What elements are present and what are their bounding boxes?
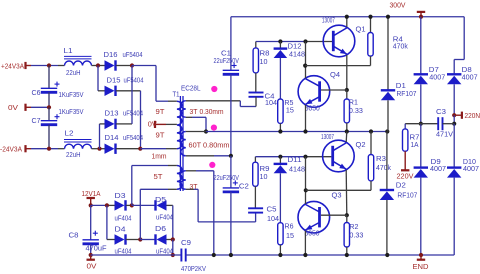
- svg-text:+24V3A: +24V3A: [1, 64, 24, 71]
- node junction +24V/C6: [47, 63, 51, 67]
- diode D7 4007: [420, 17, 422, 75]
- wire Q1 emitter down: [346, 55, 348, 90]
- phase dot upper: [211, 86, 217, 92]
- svg-text:300V: 300V: [390, 3, 406, 10]
- wire Q2 base rail: [255, 156, 305, 158]
- wire to transformer primary top: [132, 65, 156, 67]
- svg-text:4148: 4148: [289, 52, 305, 59]
- wire D4 cathode to node: [126, 239, 140, 241]
- wire Q4 emitter to mid rail: [305, 105, 307, 132]
- resistor R4 470k: [370, 17, 372, 33]
- wire -24V rail: [26, 148, 31, 150]
- node junction 3T ground: [212, 253, 216, 257]
- wire Q1 base rail: [256, 41, 306, 43]
- svg-text:0V: 0V: [148, 122, 157, 129]
- transformer primary 60T winding: [181, 132, 186, 156]
- terminal 0V left: [24, 104, 26, 111]
- node junction 5T top node: [130, 203, 134, 207]
- svg-text:Q2: Q2: [356, 142, 366, 149]
- node junction capacitor midpoint: [229, 154, 233, 158]
- wire D3 cathode to node: [126, 204, 132, 206]
- node junction R4 top: [368, 15, 372, 19]
- svg-text:T1: T1: [173, 92, 180, 99]
- svg-text:R4: R4: [393, 37, 403, 44]
- node junction 0V/C6/C7: [47, 105, 51, 109]
- svg-text:4148: 4148: [289, 167, 305, 174]
- svg-text:Q1: Q1: [356, 27, 366, 34]
- svg-text:D11: D11: [288, 157, 302, 164]
- svg-text:D4: D4: [115, 227, 126, 234]
- wire Q3 base: [321, 214, 347, 216]
- node junction D14 anode: [97, 147, 101, 151]
- svg-text:1KuF35V: 1KuF35V: [59, 109, 84, 116]
- node junction R3 return: [304, 188, 308, 192]
- transformer secondary 3T drive winding lower: [180, 171, 186, 190]
- terminal 12V1A: [87, 197, 95, 199]
- terminal -24V3A: [24, 145, 26, 152]
- svg-text:D2: D2: [396, 183, 406, 190]
- wire 12V rail: [91, 204, 107, 206]
- wire 60T bottom pin to C1/C2 midpoint: [186, 155, 214, 157]
- diode D6 uF404: [157, 234, 167, 244]
- wire anodes to primary ground: [172, 240, 174, 256]
- node junction D7/C3: [419, 122, 423, 126]
- inductor L1: [58, 65, 65, 67]
- svg-text:220V: 220V: [397, 174, 414, 181]
- node junction Q4 emitter mid: [303, 129, 307, 133]
- svg-text:0.33: 0.33: [349, 233, 363, 240]
- node junction D2 ground: [385, 253, 389, 257]
- node junction R2 ground: [345, 253, 349, 257]
- svg-text:D16: D16: [104, 52, 118, 59]
- diode D5 uF404: [157, 200, 167, 210]
- wire D12 to R5: [279, 58, 281, 99]
- diode D14 uF5404: [105, 144, 115, 154]
- svg-text:C1: C1: [221, 51, 231, 58]
- svg-text:L1: L1: [64, 48, 73, 55]
- transistor Q2 13007: [323, 140, 355, 172]
- svg-text:22uH: 22uH: [66, 152, 81, 159]
- node junction rectified +24 node: [130, 63, 134, 67]
- svg-text:D12: D12: [288, 44, 302, 51]
- svg-text:C7: C7: [32, 118, 41, 125]
- terminal 220V: [404, 151, 406, 170]
- capacitor C9 470P2KV: [180, 249, 182, 262]
- capacitor C2 22uF250V: [230, 156, 232, 188]
- node junction D16 anode: [96, 63, 100, 67]
- resistor R8 10: [255, 42, 257, 48]
- wire Q1 collector to rail: [346, 17, 348, 27]
- diode D8 4007: [447, 73, 461, 75]
- wire L2 to D14: [92, 148, 105, 150]
- svg-text:22uH: 22uH: [66, 70, 81, 77]
- svg-text:471V: 471V: [436, 132, 453, 139]
- svg-text:D6: D6: [155, 226, 166, 233]
- node junction Q3 emitter ground: [303, 253, 307, 257]
- svg-text:22uF250V: 22uF250V: [214, 175, 240, 182]
- svg-text:uF5404: uF5404: [123, 135, 143, 142]
- wire Q2 emitter down: [345, 170, 348, 215]
- wire Q2 collector to mid rail: [345, 132, 348, 143]
- svg-text:4007: 4007: [462, 75, 478, 82]
- wire D6 anode to ground branch: [167, 239, 173, 241]
- svg-text:0V: 0V: [8, 105, 18, 112]
- capacitor C5 104: [254, 186, 256, 208]
- wire D8 to C3 node: [453, 115, 455, 124]
- terminal 220N: [452, 113, 456, 117]
- node junction 12V rail: [89, 203, 93, 207]
- svg-text:8050: 8050: [305, 231, 320, 238]
- svg-text:15: 15: [286, 108, 294, 115]
- svg-text:RF107: RF107: [397, 91, 417, 98]
- svg-text:C8: C8: [69, 233, 79, 240]
- transistor Q4 8050: [298, 76, 330, 108]
- resistor R7 1A: [404, 124, 406, 129]
- wire primary ground rail: [91, 254, 182, 256]
- node junction C2 ground: [229, 253, 233, 257]
- transformer T1 EC28L core: [179, 96, 181, 191]
- diode D1 RF107: [387, 17, 389, 91]
- phase dot middle: [211, 125, 217, 131]
- svg-text:0V: 0V: [87, 264, 97, 271]
- svg-text:60T 0.80mm: 60T 0.80mm: [189, 143, 230, 150]
- wire 300V top rail: [231, 16, 464, 18]
- diode D12 4148: [279, 42, 281, 49]
- svg-text:8050: 8050: [305, 106, 320, 113]
- svg-text:12V1A: 12V1A: [82, 191, 101, 198]
- svg-text:D10: D10: [463, 159, 476, 166]
- terminal +24V3A: [24, 62, 26, 69]
- node junction C8 ground: [89, 253, 93, 257]
- svg-text:4007: 4007: [430, 166, 446, 173]
- node junction R3 mid: [369, 129, 373, 133]
- svg-text:D8: D8: [462, 67, 472, 74]
- svg-text:104: 104: [267, 216, 279, 223]
- node junction primary ground: [171, 253, 175, 257]
- wire D7 line to D9: [420, 124, 422, 168]
- diode D3 uF404: [115, 200, 125, 210]
- svg-text:10: 10: [260, 174, 268, 181]
- wire L1 to D16: [92, 65, 105, 67]
- svg-text:3T: 3T: [190, 109, 199, 116]
- diode D4 uF404: [115, 234, 125, 244]
- svg-text:R9: R9: [260, 166, 270, 173]
- resistor R9 10: [254, 157, 256, 163]
- svg-text:9T: 9T: [156, 109, 166, 116]
- capacitor C6 1KuF35V: [48, 66, 50, 89]
- svg-text:13007: 13007: [322, 18, 335, 25]
- svg-text:D3: D3: [115, 193, 126, 200]
- svg-text:RF107: RF107: [397, 192, 417, 199]
- svg-text:-24V3A: -24V3A: [0, 147, 22, 154]
- svg-text:END: END: [413, 264, 429, 271]
- svg-text:D5: D5: [155, 197, 166, 204]
- transistor Q1 13007: [323, 25, 355, 57]
- capacitor C8 470uF: [90, 205, 92, 239]
- wire mid rail: [206, 131, 387, 133]
- wire 0V rail: [26, 106, 31, 108]
- wire Q3 collector line: [305, 157, 307, 204]
- node junction 300V: [419, 15, 423, 19]
- wire D16 cathode to node: [116, 65, 132, 67]
- svg-text:R8: R8: [260, 51, 270, 58]
- wire secondary ground rail: [186, 254, 455, 256]
- svg-text:C2: C2: [239, 184, 249, 191]
- svg-text:D13: D13: [105, 111, 119, 118]
- wire R4 bottom to base line: [370, 56, 372, 66]
- wire Q4 collector line: [305, 42, 307, 79]
- node junction R4 return: [303, 64, 307, 68]
- svg-text:470uF: 470uF: [86, 246, 107, 253]
- node junction END ground: [419, 253, 423, 257]
- svg-text:R6: R6: [285, 224, 294, 231]
- svg-text:9T: 9T: [156, 133, 166, 140]
- svg-text:Q4: Q4: [330, 72, 340, 79]
- wire D11 to R6: [279, 173, 281, 222]
- wire node to D6 cathode: [140, 239, 155, 241]
- svg-text:uF404: uF404: [115, 216, 132, 223]
- capacitor C4 104: [255, 73, 257, 93]
- node junction R1 mid / Q2 collector: [345, 129, 349, 133]
- wire 3T lower bottom pin to C5: [186, 188, 194, 190]
- svg-text:C9: C9: [181, 240, 191, 247]
- node junction D11 top: [278, 155, 282, 159]
- resistor R2 0.33: [346, 215, 348, 222]
- transformer feedback 5T winding: [177, 166, 182, 190]
- svg-text:1KuF35V: 1KuF35V: [59, 92, 84, 99]
- svg-text:470k: 470k: [393, 44, 408, 51]
- node junction Q1 emitter / Q4 base: [345, 88, 349, 92]
- wire D15 branch: [97, 66, 99, 91]
- svg-text:15: 15: [286, 233, 294, 240]
- wire D15 cathode down to -24 node: [116, 90, 141, 92]
- wire Q4 base: [321, 89, 347, 91]
- svg-text:D15: D15: [107, 78, 121, 85]
- node junction -24V/C7: [47, 147, 51, 151]
- svg-text:L2: L2: [65, 131, 74, 138]
- node junction rectified -24 node: [138, 147, 142, 151]
- svg-text:D1: D1: [396, 83, 406, 90]
- node junction D5/D6 anodes: [171, 237, 175, 241]
- node junction Q2 base line: [303, 155, 307, 159]
- node junction D1 top: [386, 15, 390, 19]
- wire node to D5 cathode: [132, 204, 155, 206]
- svg-text:104: 104: [265, 100, 277, 107]
- transformer primary 9T+9T winding: [177, 101, 182, 149]
- diode D9 4007: [414, 166, 428, 168]
- svg-text:R1: R1: [349, 100, 358, 107]
- wire 5T top connection: [131, 166, 133, 206]
- svg-text:uF404: uF404: [156, 215, 173, 222]
- svg-text:R5: R5: [284, 100, 293, 107]
- svg-text:470P2KV: 470P2KV: [181, 266, 206, 273]
- svg-text:220N: 220N: [465, 113, 480, 120]
- node junction Q2 emitter / Q3 base: [345, 213, 349, 217]
- node junction D12 top: [278, 39, 282, 43]
- diode D2 RF107: [386, 132, 388, 191]
- wire D4 branch vertical: [106, 205, 108, 239]
- wire 60T top pin: [186, 131, 206, 133]
- svg-text:10: 10: [260, 59, 268, 66]
- svg-text:D9: D9: [431, 159, 441, 166]
- node junction C3 right: [452, 122, 456, 126]
- capacitor C7 1KuF35V: [48, 107, 50, 120]
- svg-text:4007: 4007: [463, 166, 479, 173]
- wire 3T lower top pin to ground: [186, 170, 196, 172]
- resistor R6 15: [278, 223, 283, 245]
- svg-text:R2: R2: [349, 224, 358, 231]
- node junction Q1 base line: [303, 39, 307, 43]
- diode D15 uF5404: [105, 86, 115, 96]
- svg-text:uF5404: uF5404: [123, 52, 143, 59]
- wire D13 cathode up to +24 node: [116, 123, 132, 125]
- svg-text:1mm: 1mm: [152, 154, 167, 161]
- svg-text:C6: C6: [32, 90, 41, 97]
- svg-text:R7: R7: [410, 135, 420, 142]
- node junction R5 mid: [278, 129, 282, 133]
- node junction mid-rail left: [204, 129, 208, 133]
- diode D16 uF5404: [105, 60, 115, 70]
- transistor Q3 8050: [298, 201, 330, 233]
- wire Q3 emitter to ground: [304, 231, 306, 255]
- svg-text:Q3: Q3: [332, 193, 342, 200]
- svg-text:5T: 5T: [154, 174, 164, 181]
- svg-text:0.30mm: 0.30mm: [200, 109, 224, 116]
- wire D10 branch: [453, 124, 455, 168]
- node junction Q1 collector: [345, 15, 349, 19]
- node junction D4 branch: [105, 203, 109, 207]
- diode D13 uF5404: [105, 119, 115, 129]
- svg-text:R3: R3: [376, 156, 386, 163]
- svg-text:EC28L: EC28L: [181, 85, 201, 92]
- terminal 0V bottom: [90, 255, 92, 260]
- resistor R5 15: [278, 99, 283, 123]
- resistor R3 470k: [370, 132, 372, 155]
- svg-text:D14: D14: [105, 135, 119, 142]
- node junction 5T bottom node: [138, 237, 142, 241]
- phase dot lower: [209, 162, 215, 168]
- diode D10 4007: [447, 166, 461, 168]
- svg-text:C3: C3: [436, 109, 446, 116]
- svg-text:uF5404: uF5404: [124, 78, 144, 85]
- transformer secondary 3T drive winding upper: [181, 101, 186, 118]
- node junction R6 ground: [278, 253, 282, 257]
- wire 3T upper top pin to C4: [186, 100, 241, 102]
- svg-text:uF5404: uF5404: [123, 111, 143, 118]
- inductor L2: [58, 148, 65, 150]
- wire D13 branch: [99, 124, 101, 149]
- svg-text:1A: 1A: [411, 142, 419, 149]
- node junction D1 anode mid: [385, 129, 389, 133]
- wire 3T upper bottom pin: [186, 116, 192, 118]
- terminal END: [420, 255, 422, 260]
- svg-text:0.33: 0.33: [349, 108, 363, 115]
- wire 5T bottom connection: [139, 189, 141, 239]
- wire D14 cathode rail to transformer: [116, 148, 140, 150]
- diode D11 4148: [279, 157, 281, 164]
- terminal 0V primary tap: [154, 121, 156, 128]
- svg-text:470k: 470k: [376, 165, 391, 172]
- svg-text:C5: C5: [267, 207, 277, 214]
- capacitor C3 471V: [405, 123, 438, 125]
- capacitor C1 22uF250V: [230, 17, 232, 71]
- resistor R1 0.33: [346, 90, 348, 99]
- wire D5 anode down: [167, 204, 173, 206]
- svg-text:22uF250V: 22uF250V: [214, 58, 240, 65]
- svg-text:13007: 13007: [321, 134, 334, 141]
- wire +24V input rail: [26, 65, 31, 67]
- svg-text:4007: 4007: [429, 75, 445, 82]
- svg-text:D7: D7: [429, 67, 439, 74]
- wire R3 bottom to base line: [370, 181, 372, 190]
